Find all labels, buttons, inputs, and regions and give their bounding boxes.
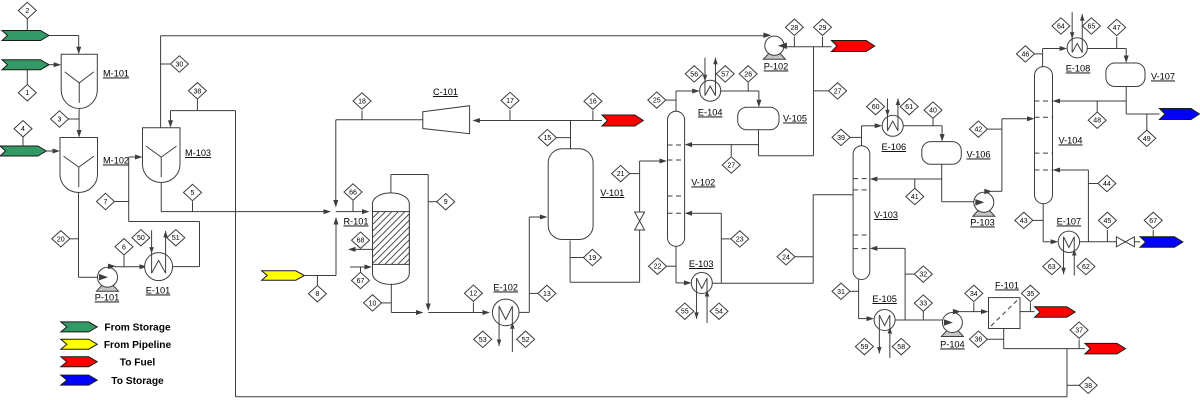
wire V-102 overhead to E-104 (675, 91, 677, 111)
svg-text:46: 46 (1022, 51, 1030, 58)
node 22 diamond (662, 265, 676, 267)
svg-text:2: 2 (25, 8, 29, 15)
svg-text:53: 53 (479, 337, 487, 344)
svg-text:V-107: V-107 (1151, 72, 1175, 82)
pump P-102 (763, 54, 785, 60)
legend From Storage arrow (61, 322, 97, 332)
node 61 diamond (900, 98, 918, 114)
svg-text:24: 24 (782, 254, 790, 261)
svg-text:V-103: V-103 (874, 210, 898, 220)
node 20 diamond (65, 238, 79, 240)
node 7 diamond (110, 201, 129, 203)
node 31 diamond (846, 290, 859, 292)
node 45 diamond (1106, 230, 1108, 242)
wire C-101 outlet (336, 119, 423, 121)
svg-text:1: 1 (25, 90, 29, 97)
wire to E-102 (428, 312, 484, 314)
wire E-108 to V-107 (1087, 48, 1126, 50)
node 4 diamond (22, 137, 24, 146)
wire into M-102 side (46, 150, 54, 152)
stream 67 arrow (To Storage) (1140, 237, 1183, 247)
node 55 diamond (676, 303, 694, 319)
node 17 diamond (509, 110, 511, 121)
node 41 diamond (914, 179, 916, 191)
wire bottom recycle line (235, 111, 237, 397)
svg-text:33: 33 (919, 301, 927, 308)
node 28 diamond (793, 37, 795, 47)
node 9 diamond (428, 201, 440, 203)
wire C-101 outlet down to junction (335, 120, 337, 203)
svg-text:25: 25 (653, 98, 661, 105)
pump P-101 (97, 286, 119, 292)
mixer M-102 (60, 138, 98, 193)
svg-text:55: 55 (681, 309, 689, 316)
wire E-107 bottoms through valve to storage (1080, 241, 1117, 243)
svg-text:43: 43 (1020, 218, 1028, 225)
node 27 diamond (reflux) (730, 145, 732, 156)
node 49 diamond (1146, 114, 1148, 133)
stream 49 arrow (To Storage) (1160, 109, 1200, 120)
reactor R-101 (373, 193, 410, 284)
svg-text:F-101: F-101 (995, 281, 1019, 291)
wire V-105 bottom / reflux to V-102 (758, 130, 760, 156)
wire F-101 outlet to fuel (1020, 311, 1035, 313)
svg-text:19: 19 (589, 255, 597, 262)
wire junction into R-101 (336, 211, 364, 213)
wire V-107 bottom / reflux to V-104 (1125, 87, 1127, 115)
node 56 diamond (685, 66, 703, 82)
svg-text:45: 45 (1104, 218, 1112, 225)
node 27 diamond (riser) (814, 90, 833, 92)
svg-text:8: 8 (315, 291, 319, 298)
svg-text:37: 37 (1075, 328, 1083, 335)
node 10 diamond (377, 302, 391, 304)
stream 2 feed arrow (From Storage) (2, 31, 49, 41)
svg-text:60: 60 (872, 104, 880, 111)
pump P-104 (941, 331, 963, 337)
svg-text:E-105: E-105 (872, 294, 897, 304)
svg-text:C-101: C-101 (433, 87, 458, 97)
wire E-107 vapor return to V-104 (1087, 170, 1089, 242)
wire stream 1 into M-101 top (49, 35, 79, 37)
svg-text:44: 44 (1103, 181, 1111, 188)
node 8 diamond (316, 276, 318, 286)
legend To Storage arrow (61, 375, 97, 385)
svg-text:61: 61 (905, 104, 913, 111)
wire E-101 to M-103 (173, 266, 200, 268)
svg-text:27: 27 (834, 88, 842, 95)
svg-text:E-108: E-108 (1066, 64, 1091, 74)
node 15 diamond (552, 137, 571, 139)
heat exchanger E-107 (1058, 231, 1079, 252)
svg-text:15: 15 (544, 135, 552, 142)
svg-text:54: 54 (715, 309, 723, 316)
stream 8 feed arrow (From Pipeline) (262, 271, 305, 280)
svg-text:63: 63 (1048, 264, 1056, 271)
wire pipeline feed to junction (304, 275, 336, 277)
wire F-101 bottoms / recycle split (1003, 329, 1005, 349)
svg-text:41: 41 (911, 194, 919, 201)
svg-text:5: 5 (191, 190, 195, 197)
wire recycle stream 38 into M-103 top (171, 110, 236, 112)
wire V-104 bottom to E-107 (1042, 204, 1044, 242)
node 3 diamond (64, 118, 79, 120)
node 5 diamond (192, 202, 194, 212)
svg-text:34: 34 (970, 291, 978, 298)
node 60 diamond (867, 98, 885, 114)
node 57 diamond (716, 66, 734, 82)
node 30 diamond (161, 63, 173, 65)
stream 4 feed arrow (From Storage) (0, 146, 46, 156)
node 62 diamond (1077, 258, 1095, 274)
wire V-103 bottom to E-105 (858, 280, 860, 319)
svg-text:66: 66 (349, 190, 357, 197)
svg-text:From Storage: From Storage (104, 323, 171, 334)
wire R-101 bottom outlet (390, 284, 392, 312)
wire E-103 bottoms to V-103 (712, 282, 813, 284)
node 12 diamond (472, 303, 474, 313)
wire top header from M-103 riser to P-102 (161, 35, 766, 37)
node 39 diamond (846, 136, 862, 138)
svg-text:10: 10 (369, 300, 377, 307)
node 35 diamond (1029, 303, 1031, 312)
valve on storage line (1116, 237, 1125, 247)
svg-text:67: 67 (357, 278, 365, 285)
wire R-101 jacket outlet stream 68 (353, 248, 373, 250)
svg-text:E-106: E-106 (882, 142, 907, 152)
node 26 diamond (747, 83, 749, 92)
heat exchanger E-108 (1067, 38, 1087, 58)
svg-text:42: 42 (975, 127, 983, 134)
svg-text:From Pipeline: From Pipeline (104, 340, 172, 351)
wire E-105 bottoms to P-104 (895, 319, 943, 321)
legend From Pipeline arrow (61, 339, 97, 349)
node 68 diamond (360, 248, 362, 250)
svg-text:32: 32 (919, 272, 927, 279)
svg-text:62: 62 (1082, 264, 1090, 271)
wire V-101 vapor to C-101 inlet (478, 120, 571, 122)
node 6 diamond (123, 256, 125, 267)
wire recycle stream 30 into M-103 (long top header) (160, 36, 162, 128)
svg-text:To Fuel: To Fuel (120, 357, 156, 368)
stream 35 arrow (To Fuel) (1035, 307, 1076, 317)
node 51 diamond (167, 230, 185, 246)
heat exchanger E-102 (492, 299, 519, 326)
node 29 diamond (822, 37, 824, 47)
svg-text:57: 57 (721, 71, 729, 78)
node 21 diamond (625, 173, 640, 175)
svg-text:16: 16 (589, 99, 597, 106)
svg-text:64: 64 (1057, 24, 1065, 31)
node 13 diamond (529, 292, 541, 294)
node 59 diamond (855, 338, 873, 354)
svg-text:56: 56 (690, 71, 698, 78)
node 65 diamond (1082, 18, 1100, 34)
column V-104 (1035, 67, 1053, 204)
wire R-101 jacket inlet stream 67b (350, 266, 366, 268)
svg-text:E-101: E-101 (146, 286, 171, 296)
node 64 diamond (1052, 18, 1070, 34)
pump P-103 (973, 211, 995, 217)
wire E-105 vapor return to V-103 (904, 248, 906, 320)
node 48 diamond (1096, 101, 1098, 115)
heat exchanger E-105 (874, 310, 895, 331)
svg-text:V-101: V-101 (600, 188, 624, 198)
svg-text:E-107: E-107 (1057, 217, 1082, 227)
node 38 diamond (196, 100, 198, 111)
wire M-103 bottom to reactor feed junction (160, 183, 162, 212)
node 53 diamond (474, 331, 492, 347)
svg-text:4: 4 (21, 126, 25, 133)
node 23 diamond (721, 238, 734, 240)
wire P-102 discharge to fuel (784, 46, 832, 48)
stream 37 arrow (To Fuel) (1085, 343, 1126, 354)
node 40 diamond (932, 119, 934, 126)
svg-text:V-104: V-104 (1058, 136, 1082, 146)
svg-text:48: 48 (1093, 118, 1101, 125)
node 67 diamond (1152, 230, 1154, 237)
svg-text:49: 49 (1143, 136, 1151, 143)
node 34 diamond (973, 303, 975, 312)
svg-text:29: 29 (819, 25, 827, 32)
svg-text:M-102: M-102 (103, 156, 129, 166)
svg-text:V-106: V-106 (966, 150, 990, 160)
mixer M-103 (143, 128, 181, 183)
node 24 diamond (791, 256, 813, 258)
wire R-101 top bypass stream 9 (390, 175, 392, 193)
svg-text:13: 13 (543, 291, 551, 298)
svg-text:38: 38 (1084, 383, 1092, 390)
wire P-104 discharge to F-101 (960, 311, 983, 313)
stream 1 feed arrow (From Storage) (2, 60, 49, 70)
wire V-104 overhead to E-108 (1042, 49, 1044, 67)
svg-text:58: 58 (897, 344, 905, 351)
node 32 diamond (905, 273, 918, 275)
svg-text:E-104: E-104 (698, 108, 723, 118)
svg-text:P-102: P-102 (764, 62, 789, 72)
column V-103 (853, 146, 870, 280)
wire E-104 to V-105 (721, 90, 759, 92)
heat exchanger E-106 (882, 115, 903, 136)
node 43 diamond (1028, 219, 1043, 221)
svg-text:M-101: M-101 (103, 69, 129, 79)
mixer M-101 (61, 54, 97, 108)
valve on V-101 liquid line (635, 212, 645, 221)
node 18 diamond (361, 111, 363, 120)
wire M-102 bottom to P-101 (78, 193, 80, 278)
svg-text:67: 67 (1149, 218, 1157, 225)
svg-text:68: 68 (357, 238, 365, 245)
svg-text:28: 28 (791, 25, 799, 32)
svg-text:36: 36 (975, 337, 983, 344)
compressor C-101 (423, 106, 470, 134)
heat exchanger E-101 (145, 253, 173, 281)
node 47 diamond (1116, 37, 1118, 49)
svg-text:12: 12 (470, 291, 478, 298)
svg-text:17: 17 (506, 98, 514, 105)
drum V-107 (1106, 63, 1145, 87)
node 58 diamond (892, 338, 910, 354)
svg-text:E-102: E-102 (493, 283, 518, 293)
svg-text:V-102: V-102 (691, 178, 715, 188)
svg-text:59: 59 (861, 344, 869, 351)
wire V-101 top vapor (570, 121, 572, 149)
node 38b diamond (1067, 384, 1083, 386)
wire E-106 to V-106 (903, 125, 942, 127)
svg-text:To Storage: To Storage (111, 376, 164, 387)
svg-text:39: 39 (837, 135, 845, 142)
node 2 diamond (26, 19, 28, 31)
svg-text:40: 40 (929, 108, 937, 115)
wire distillate to storage (1126, 113, 1159, 115)
wire E-103 vapor return to V-102 (720, 213, 722, 283)
wire V-103 overhead to E-106 (861, 126, 863, 146)
column V-102 (668, 111, 685, 246)
svg-text:P-101: P-101 (95, 293, 120, 303)
node 63 diamond (1043, 258, 1061, 274)
stream 16 arrow (To Fuel) (602, 115, 643, 126)
legend To Fuel arrow (61, 357, 97, 367)
node 16 diamond (592, 111, 594, 121)
svg-text:6: 6 (122, 244, 126, 251)
node 19 diamond (570, 257, 587, 259)
wire V-102 bottom to E-103 (675, 246, 677, 283)
svg-text:35: 35 (1027, 291, 1035, 298)
svg-text:26: 26 (744, 71, 752, 78)
node 50 diamond (132, 230, 150, 246)
stream 29 arrow (To Fuel) (832, 41, 875, 52)
svg-text:18: 18 (358, 99, 366, 106)
svg-text:65: 65 (1088, 24, 1096, 31)
wire M-101 to M-102 (78, 109, 80, 137)
heat exchanger E-103 (691, 273, 712, 294)
node 66 diamond (352, 201, 354, 212)
wire P-101 to E-101 (115, 266, 142, 268)
node 1 diamond (26, 70, 28, 84)
node 44 diamond (1088, 183, 1101, 185)
svg-text:V-105: V-105 (783, 114, 807, 124)
wire V-101 bottom to valve to V-102 (569, 241, 571, 283)
node 52 diamond (517, 331, 535, 347)
node 46 diamond (1030, 53, 1043, 55)
filter F-101 (989, 298, 1021, 329)
wire V-106 bottom / reflux to V-103 (941, 164, 943, 202)
node 67b diamond (360, 267, 362, 272)
svg-text:51: 51 (172, 235, 180, 242)
svg-text:30: 30 (176, 62, 184, 69)
svg-text:E-103: E-103 (689, 259, 714, 269)
svg-text:27: 27 (727, 163, 735, 170)
svg-text:9: 9 (444, 199, 448, 206)
svg-text:47: 47 (1113, 25, 1121, 32)
svg-text:31: 31 (837, 289, 845, 296)
svg-text:P-103: P-103 (970, 218, 995, 228)
svg-text:3: 3 (58, 117, 62, 124)
svg-text:38: 38 (194, 88, 202, 95)
wire P-103 discharge to V-104 (991, 190, 1002, 192)
svg-text:R-101: R-101 (343, 217, 368, 227)
vessel V-101 (548, 149, 593, 240)
svg-text:7: 7 (104, 199, 108, 206)
svg-text:50: 50 (137, 235, 145, 242)
wire into M-101 side (49, 64, 55, 66)
drum V-106 (922, 142, 962, 165)
heat exchanger E-104 (700, 80, 721, 101)
svg-text:M-103: M-103 (185, 148, 211, 158)
wire E-102 outlet to V-101 (519, 311, 529, 313)
svg-text:P-104: P-104 (940, 340, 965, 350)
svg-text:21: 21 (617, 171, 625, 178)
svg-text:22: 22 (654, 264, 662, 271)
svg-text:23: 23 (736, 236, 744, 243)
svg-text:20: 20 (57, 236, 65, 243)
node 54 diamond (710, 303, 728, 319)
node 37 diamond (1078, 340, 1080, 349)
node 33 diamond (922, 312, 924, 320)
node 42 diamond (983, 128, 1002, 130)
node 36 diamond (983, 338, 1004, 340)
wire to fuel arrow stream 16 (571, 120, 602, 122)
svg-text:52: 52 (522, 337, 530, 344)
drum V-105 (738, 107, 779, 130)
node 25 diamond (661, 99, 676, 101)
